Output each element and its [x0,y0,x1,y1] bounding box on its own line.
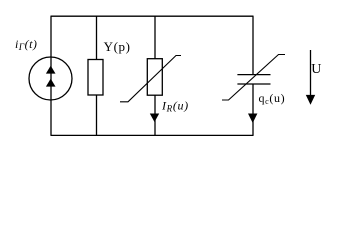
wire left branch [50,16,52,135]
svg-text:qc(u): qc(u) [259,91,286,106]
wire C branch upper [252,16,254,74]
nonlinear capacitor C [222,55,285,101]
svg-text:IR(u): IR(u) [161,99,189,114]
wire R branch [154,16,156,135]
nonlinear resistor R [120,56,181,102]
svg-text:U: U [311,62,321,77]
current arrow I_R [150,114,159,123]
charge arrow q [248,114,257,124]
wire C branch lower [252,84,254,135]
current source I1 [29,57,72,100]
wire bottom bus [51,134,254,136]
wire top bus [51,15,254,17]
admittance Y(p) box [88,60,103,96]
svg-text:iГ(t): iГ(t) [15,37,37,53]
svg-text:Y(p): Y(p) [104,39,131,54]
wire Y branch [96,16,98,135]
voltage arrow U [306,50,315,105]
